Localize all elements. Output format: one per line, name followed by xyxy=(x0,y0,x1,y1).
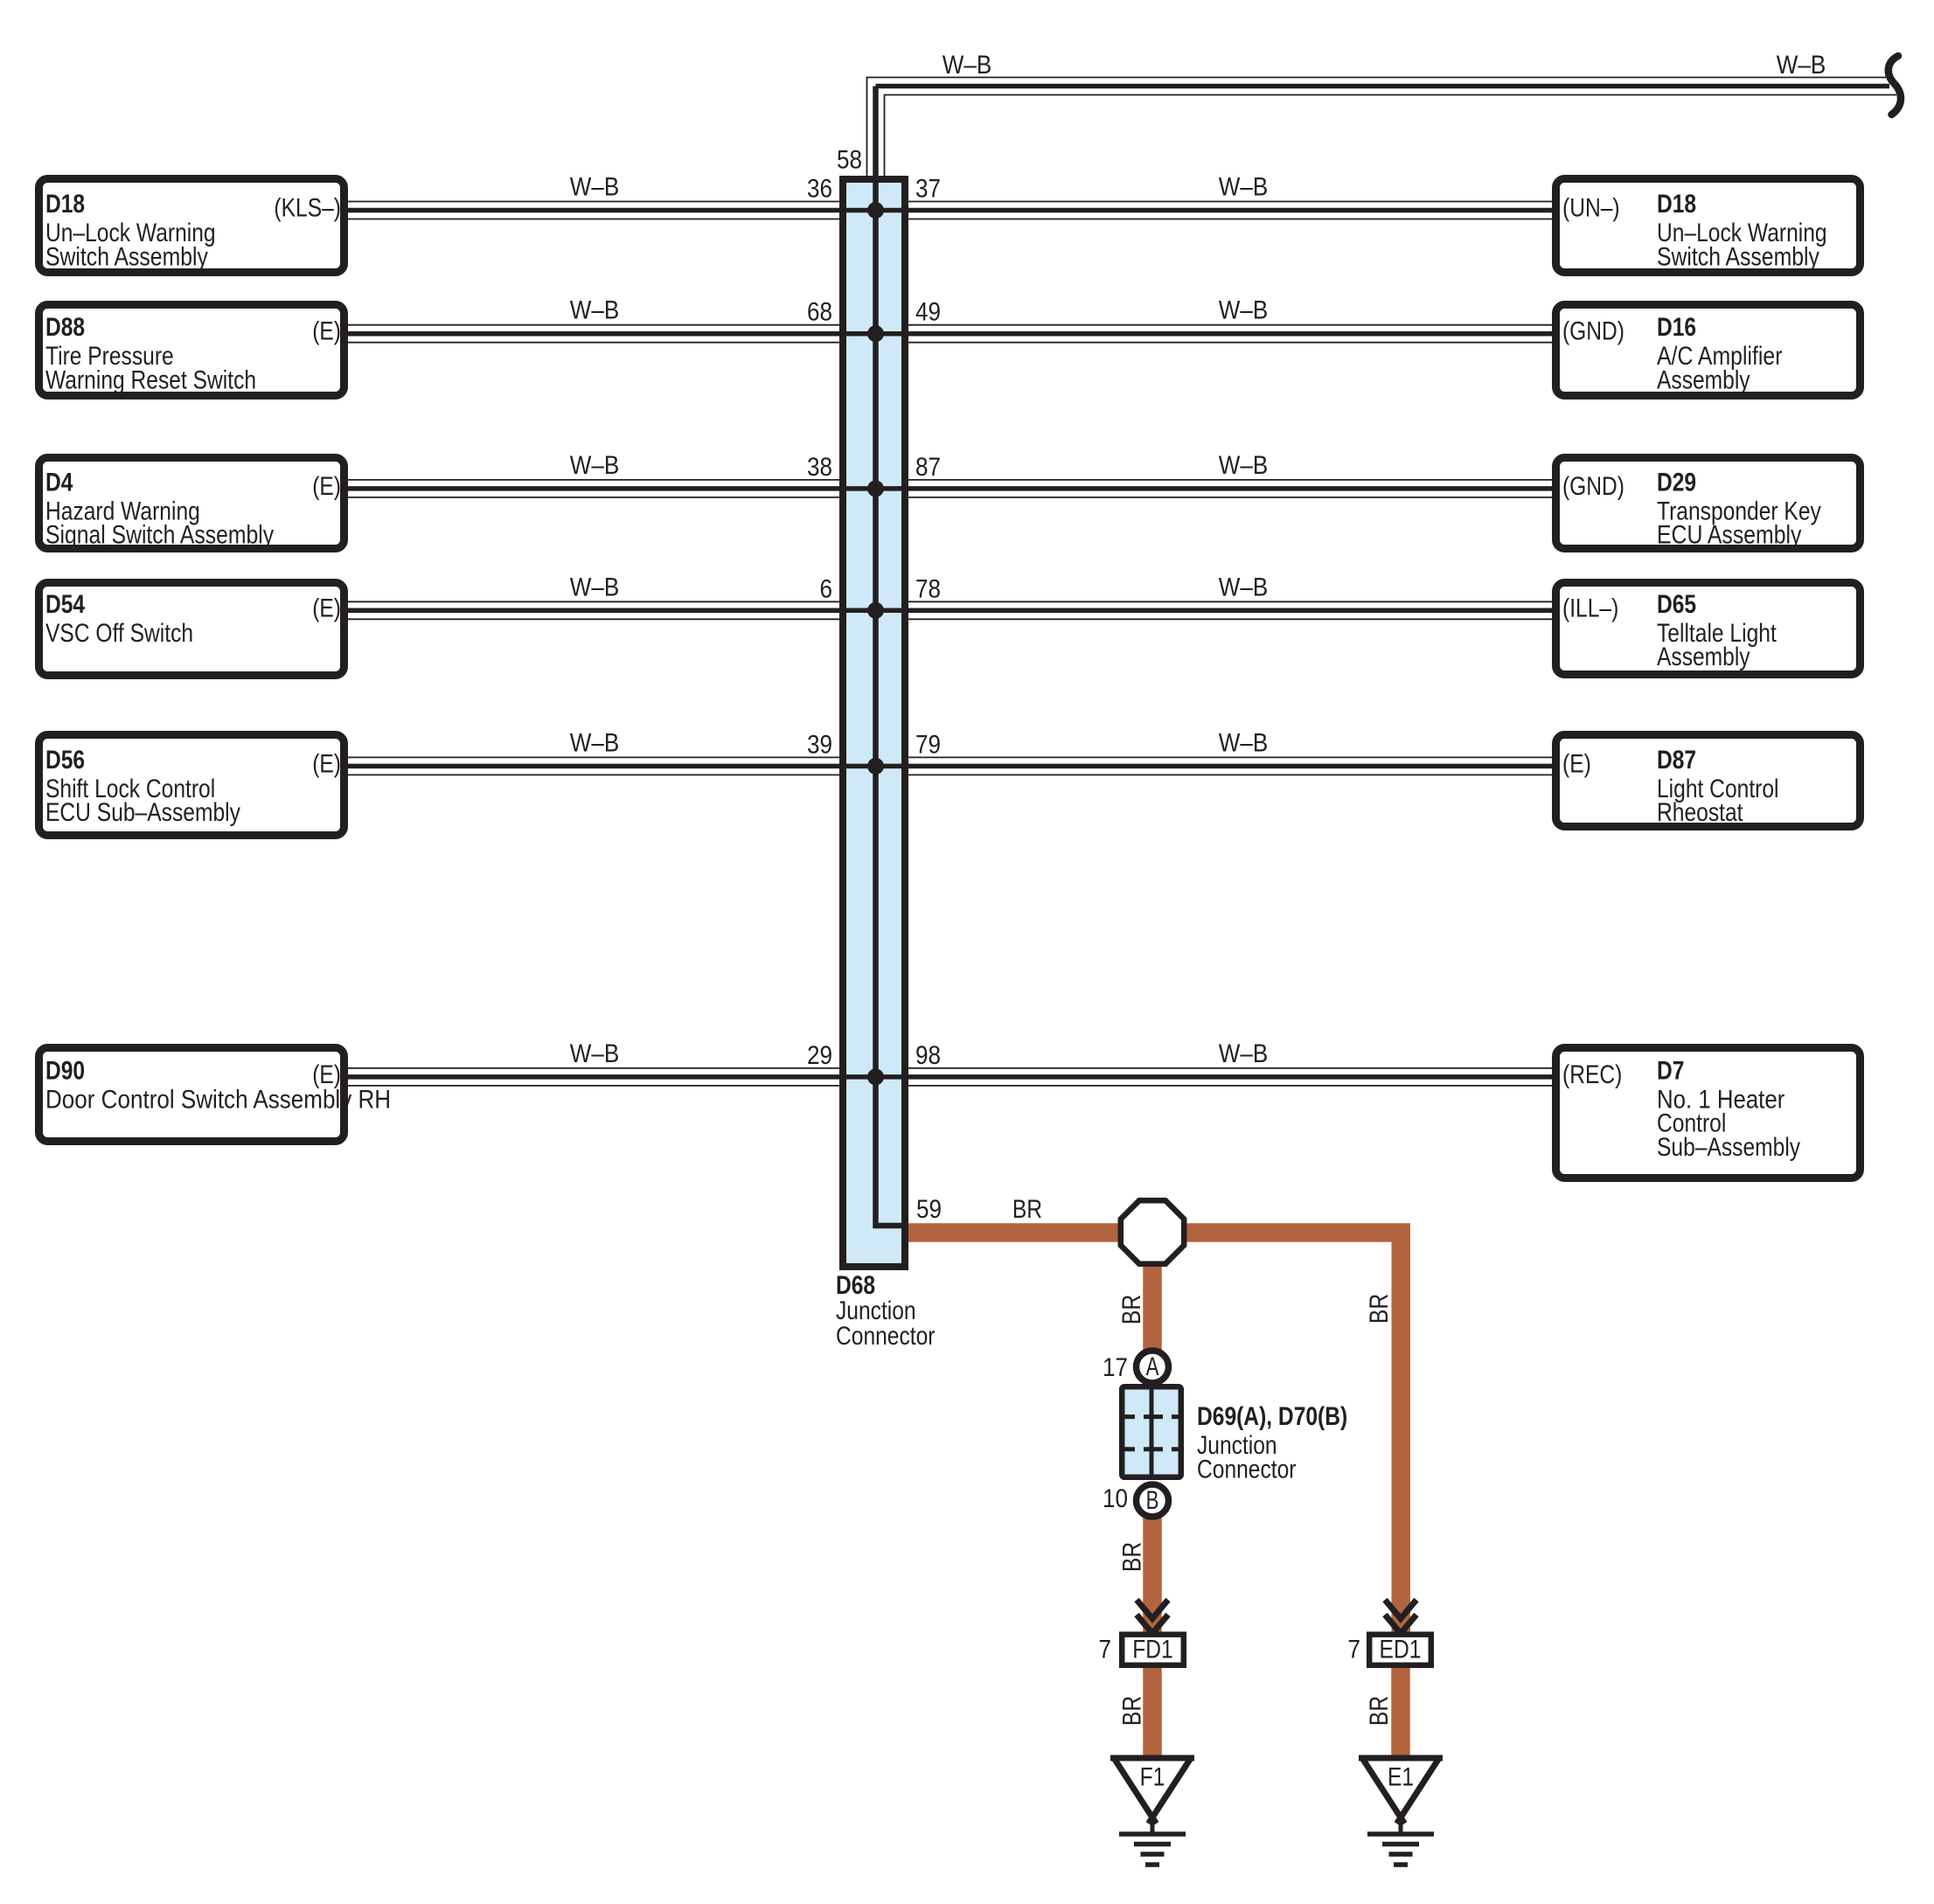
wire W-B row 5 xyxy=(346,757,1555,775)
connector D90 Door Control Switch Assembly RH xyxy=(39,1048,344,1142)
connector D18 Un-Lock Warning Switch Assembly (left) xyxy=(39,179,344,273)
connector D87 Light Control Rheostat xyxy=(1556,735,1861,827)
svg-text:D29: D29 xyxy=(1657,468,1696,497)
wire BR below ED1 to ground E1 xyxy=(1391,1667,1410,1756)
connector D65 Telltale Light Assembly xyxy=(1556,583,1861,675)
svg-text:W–B: W–B xyxy=(1219,728,1269,757)
svg-text:(UN–): (UN–) xyxy=(1562,194,1620,223)
svg-text:79: 79 xyxy=(915,730,941,759)
junction connector D69(A)/D70(B) box xyxy=(1122,1386,1181,1477)
double chevron arrows into ED1 xyxy=(1385,1600,1416,1634)
svg-text:BR: BR xyxy=(1118,1542,1147,1572)
svg-text:49: 49 xyxy=(915,298,941,327)
svg-text:W–B: W–B xyxy=(570,728,620,757)
svg-text:D18: D18 xyxy=(45,190,85,219)
junction dot row 2 on D68 bus xyxy=(867,325,884,342)
junction dot row 6 on D68 bus xyxy=(867,1068,884,1085)
ground E1 xyxy=(1359,1757,1443,1866)
svg-text:W–B: W–B xyxy=(570,451,620,480)
svg-text:68: 68 xyxy=(807,298,832,327)
svg-text:39: 39 xyxy=(807,730,832,759)
wire core through D68 bar from top to pin 59 bend xyxy=(876,87,907,1226)
svg-text:D18: D18 xyxy=(1657,190,1696,219)
svg-text:(GND): (GND) xyxy=(1562,472,1624,501)
connector D56 Shift Lock Control ECU Sub-Assembly xyxy=(39,735,344,836)
svg-text:Switch Assembly: Switch Assembly xyxy=(45,242,208,271)
svg-text:Rheostat: Rheostat xyxy=(1657,798,1743,827)
svg-text:D56: D56 xyxy=(45,746,85,775)
wire W-B row 6 xyxy=(346,1068,1555,1086)
svg-text:BR: BR xyxy=(1118,1696,1147,1726)
svg-text:D88: D88 xyxy=(45,313,85,342)
junction dot row 3 on D68 bus xyxy=(867,480,884,497)
connector D4 Hazard Warning Signal Switch Assembly xyxy=(39,458,344,549)
connector D16 A/C Amplifier Assembly xyxy=(1556,305,1861,396)
connector D54 VSC Off Switch xyxy=(39,583,344,676)
wire BR octagon node down to junction A xyxy=(1143,1233,1162,1355)
wire BR from junction B down to FD1 xyxy=(1143,1512,1162,1632)
svg-text:Warning Reset Switch: Warning Reset Switch xyxy=(45,366,256,395)
svg-text:37: 37 xyxy=(915,175,941,204)
svg-text:VSC Off Switch: VSC Off Switch xyxy=(45,619,193,648)
svg-text:Assembly: Assembly xyxy=(1657,643,1750,671)
svg-text:W–B: W–B xyxy=(1219,451,1269,480)
svg-text:W–B: W–B xyxy=(943,51,992,80)
junction connector pin B circle xyxy=(1137,1484,1169,1517)
svg-text:D65: D65 xyxy=(1657,590,1696,619)
splice node (octagon) xyxy=(1121,1200,1184,1263)
svg-text:Sub–Assembly: Sub–Assembly xyxy=(1657,1133,1800,1162)
svg-text:78: 78 xyxy=(915,574,941,603)
svg-text:BR: BR xyxy=(1365,1696,1394,1726)
wire W-B row 3 xyxy=(346,480,1555,497)
svg-text:W–B: W–B xyxy=(1777,51,1826,80)
svg-text:ED1: ED1 xyxy=(1380,1636,1422,1664)
svg-text:D4: D4 xyxy=(45,468,73,497)
svg-text:(E): (E) xyxy=(312,472,341,501)
svg-text:W–B: W–B xyxy=(1219,573,1269,601)
svg-text:BR: BR xyxy=(1012,1195,1042,1224)
svg-text:59: 59 xyxy=(916,1195,942,1224)
svg-text:7: 7 xyxy=(1099,1636,1112,1664)
connector ED1 box xyxy=(1369,1635,1431,1665)
ground F1 xyxy=(1110,1757,1194,1866)
wire break squiggle (continuation symbol) at top right xyxy=(1889,56,1901,115)
svg-text:(GND): (GND) xyxy=(1562,317,1624,346)
svg-text:(E): (E) xyxy=(312,594,341,622)
svg-text:D87: D87 xyxy=(1657,746,1696,775)
svg-text:(REC): (REC) xyxy=(1562,1060,1622,1089)
svg-text:F1: F1 xyxy=(1140,1763,1165,1792)
svg-text:Switch Assembly: Switch Assembly xyxy=(1657,242,1819,271)
svg-text:ECU Sub–Assembly: ECU Sub–Assembly xyxy=(45,798,240,827)
wire W-B from pin 58 to top edge (thin outline pair + thick core) xyxy=(867,78,1897,177)
wire W-B row 4 xyxy=(346,601,1555,619)
svg-text:W–B: W–B xyxy=(570,173,620,202)
junction dot row 4 on D68 bus xyxy=(867,602,884,619)
svg-text:W–B: W–B xyxy=(570,573,620,601)
svg-text:D69(A), D70(B): D69(A), D70(B) xyxy=(1197,1402,1347,1431)
svg-text:(E): (E) xyxy=(1562,749,1591,778)
svg-text:38: 38 xyxy=(807,453,832,482)
wire W-B row 1 xyxy=(346,202,1555,219)
junction dot row 5 on D68 bus xyxy=(867,758,884,775)
svg-text:29: 29 xyxy=(807,1041,832,1070)
svg-text:87: 87 xyxy=(915,453,941,482)
svg-text:ECU Assembly: ECU Assembly xyxy=(1657,521,1801,550)
D69/D70 inner dashed row lines xyxy=(1122,1414,1181,1419)
svg-text:Connector: Connector xyxy=(1197,1456,1297,1484)
wire W-B row 2 xyxy=(346,325,1555,343)
connector D88 Tire Pressure Warning Reset Switch xyxy=(39,305,344,396)
svg-text:58: 58 xyxy=(837,146,862,175)
svg-text:6: 6 xyxy=(820,574,833,603)
junction dot row 1 on D68 bus xyxy=(867,202,884,219)
connector FD1 box xyxy=(1122,1635,1184,1665)
svg-text:Assembly: Assembly xyxy=(1657,366,1750,395)
connector D29 Transponder Key ECU Assembly xyxy=(1556,458,1861,549)
junction connector pin A circle xyxy=(1137,1351,1169,1383)
svg-text:36: 36 xyxy=(807,175,832,204)
svg-text:W–B: W–B xyxy=(1219,1039,1269,1068)
wire BR from D68 pin 59 right and down to ED1 xyxy=(908,1233,1401,1632)
svg-text:B: B xyxy=(1146,1486,1159,1515)
svg-text:17: 17 xyxy=(1103,1353,1128,1382)
svg-text:(KLS–): (KLS–) xyxy=(274,194,341,223)
connector D18 Un-Lock Warning Switch Assembly (right) xyxy=(1556,179,1861,273)
svg-text:(E): (E) xyxy=(312,749,341,778)
junction connector D68 (blue bar) xyxy=(843,179,905,1267)
D69/D70 inner divider vertical xyxy=(1150,1385,1154,1479)
svg-text:D54: D54 xyxy=(45,590,85,619)
svg-text:W–B: W–B xyxy=(570,1039,620,1068)
svg-text:(E): (E) xyxy=(312,317,341,346)
svg-text:98: 98 xyxy=(915,1041,941,1070)
svg-text:D90: D90 xyxy=(45,1056,85,1085)
svg-text:Door Control Switch Assembly R: Door Control Switch Assembly RH xyxy=(45,1085,391,1114)
svg-text:BR: BR xyxy=(1117,1295,1146,1324)
svg-text:D7: D7 xyxy=(1657,1056,1684,1085)
svg-text:7: 7 xyxy=(1348,1636,1361,1664)
wire BR below FD1 to ground F1 xyxy=(1143,1667,1162,1756)
svg-text:(E): (E) xyxy=(312,1060,341,1089)
svg-text:BR: BR xyxy=(1365,1294,1394,1324)
svg-text:E1: E1 xyxy=(1388,1763,1414,1792)
svg-text:W–B: W–B xyxy=(1219,296,1269,325)
svg-text:FD1: FD1 xyxy=(1132,1636,1173,1664)
svg-text:Signal Switch Assembly: Signal Switch Assembly xyxy=(45,521,274,550)
svg-text:(ILL–): (ILL–) xyxy=(1562,594,1618,622)
svg-text:W–B: W–B xyxy=(570,296,620,325)
svg-text:W–B: W–B xyxy=(1219,173,1269,202)
svg-text:10: 10 xyxy=(1103,1484,1128,1513)
double chevron arrows into FD1 xyxy=(1137,1600,1168,1634)
connector D7 No.1 Heater Control Sub-Assembly xyxy=(1556,1048,1861,1178)
svg-text:A: A xyxy=(1146,1352,1159,1381)
svg-text:D16: D16 xyxy=(1657,313,1696,342)
svg-text:Connector: Connector xyxy=(836,1322,936,1351)
